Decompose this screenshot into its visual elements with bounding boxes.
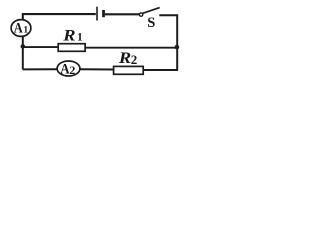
wire: R2 to bottom-right corner xyxy=(143,69,178,71)
svg-text:2: 2 xyxy=(131,52,138,67)
wire: middle branch, junction to R1 xyxy=(23,46,59,48)
switch S pivot circle xyxy=(139,13,142,16)
switch S blade xyxy=(143,8,160,14)
wire: top rail from corner above A1 to battery xyxy=(23,14,96,20)
svg-text:R: R xyxy=(62,27,75,44)
svg-text:A: A xyxy=(60,62,70,78)
label R2 xyxy=(118,50,138,67)
node: right junction dot xyxy=(175,45,180,50)
ammeter A1 xyxy=(11,20,31,37)
svg-text:A: A xyxy=(14,21,23,37)
svg-text:S: S xyxy=(147,15,155,31)
wire: bottom rail, left corner to A2 xyxy=(23,68,58,70)
wire: switch to top-right corner, right rail down xyxy=(159,15,177,70)
resistor R1 box xyxy=(58,44,85,52)
wire: left rail below A1 xyxy=(22,36,24,69)
svg-text:1: 1 xyxy=(77,31,83,43)
svg-text:2: 2 xyxy=(69,63,75,77)
wire: A2 to R2 xyxy=(80,68,114,70)
svg-text:1: 1 xyxy=(23,26,28,36)
svg-text:R: R xyxy=(118,50,131,67)
wire: middle branch, R1 to right rail xyxy=(85,47,177,49)
node: left junction dot xyxy=(21,44,26,49)
wire: battery to switch xyxy=(105,13,140,15)
label R1 xyxy=(62,27,83,44)
battery short thick plate (negative) xyxy=(102,10,105,17)
battery long plate (positive) xyxy=(96,7,98,21)
label S xyxy=(147,15,155,31)
ammeter A2 xyxy=(57,61,80,78)
resistor R2 box xyxy=(114,66,144,74)
